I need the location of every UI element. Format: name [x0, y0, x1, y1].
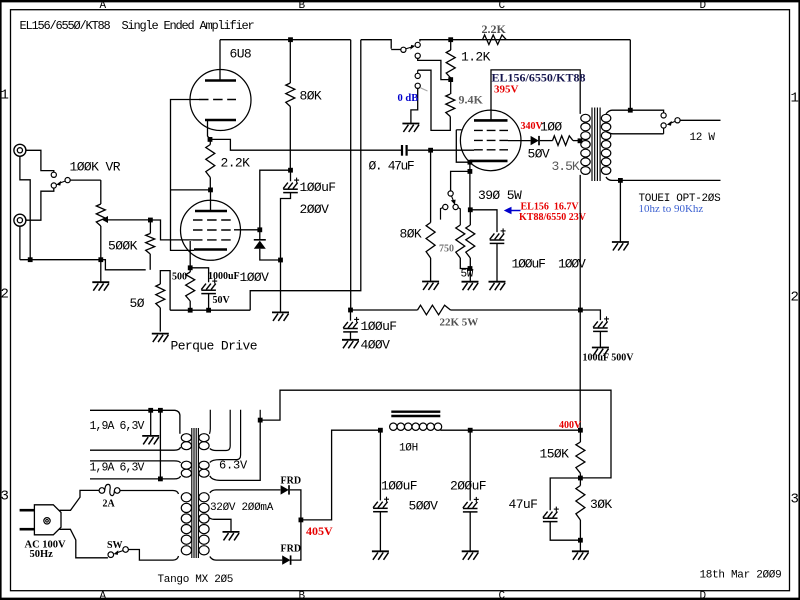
zener diode screen clamp: [259, 230, 261, 240]
capacitor 100uF 400V preamp: [350, 310, 352, 321]
svg-text:39Ø 5W: 39Ø 5W: [478, 188, 522, 203]
junction B+ main: [578, 308, 583, 313]
ground 200uF: [462, 551, 479, 560]
svg-text:2: 2: [791, 290, 799, 306]
svg-text:2ØØV: 2ØØV: [300, 202, 330, 217]
wire junction to pentode grid: [150, 220, 193, 240]
svg-text:1: 1: [791, 91, 799, 107]
junction UL tap: [578, 138, 583, 143]
wire pentode ground-return bus: [170, 309, 250, 311]
wire switch to primary bottom: [128, 550, 178, 561]
svg-text:3: 3: [791, 492, 799, 508]
svg-text:EL156 16.7V: EL156 16.7V: [521, 201, 580, 212]
svg-text:1ØØK VR: 1ØØK VR: [70, 160, 121, 175]
resistor 50 (feedback): [160, 271, 170, 311]
junction divider: [578, 476, 583, 481]
wire KT88 cathode lead: [469, 161, 471, 172]
wire 500K bottom: [149, 254, 151, 270]
wire rectifier join upper: [290, 490, 301, 520]
resistor 150K: [579, 430, 581, 442]
PT heater winding 1 left: [181, 434, 191, 450]
diode 50V screen: [531, 136, 539, 145]
input selector upper contact: [51, 172, 56, 177]
tube 6U8 triode section V1a: [190, 70, 251, 131]
tube EL156/6550/KT88 V2: [460, 110, 521, 171]
tube 6U8 pentode section V1b: [181, 200, 241, 260]
feedback switch SW-A moving contact: [401, 47, 406, 52]
ground input bus: [92, 282, 109, 291]
svg-text:6U8: 6U8: [230, 47, 252, 62]
junction cathode resistor top: [468, 207, 473, 212]
wire OPT primary bottom to B+ 400V: [579, 175, 581, 430]
svg-text:D: D: [700, 0, 707, 12]
PT primary winding left: [181, 493, 191, 555]
svg-text:50Hz: 50Hz: [30, 549, 54, 560]
svg-text:2.2K: 2.2K: [221, 156, 251, 171]
junction wiper node: [148, 218, 153, 223]
wire KT88 plate to OPT primary: [491, 70, 580, 121]
junction B+ rail 80K: [288, 37, 293, 42]
wire heater2 top: [90, 461, 181, 463]
resistor 2.2K feedback (horizontal): [483, 35, 507, 45]
input selector lever arrow: [59, 181, 66, 183]
svg-text:B: B: [299, 590, 306, 600]
svg-text:Tango MX 2Ø5: Tango MX 2Ø5: [158, 574, 234, 586]
svg-text:5ØØK: 5ØØK: [108, 239, 138, 254]
wire heater1R bottom stub: [210, 410, 230, 451]
svg-text:5W: 5W: [461, 268, 474, 280]
svg-text:3.5K: 3.5K: [552, 159, 580, 174]
junction heater reference: [258, 418, 263, 423]
wire heater tap to ground: [150, 410, 152, 435]
feedback switch SW-A lower contact: [415, 53, 420, 58]
svg-text:1: 1: [1, 88, 9, 104]
output transformer OPT core: [592, 108, 600, 182]
svg-text:A: A: [100, 0, 107, 12]
junction KT88 grid: [428, 148, 433, 153]
junction bus-pot: [98, 257, 103, 262]
wire pentode plate lead: [210, 190, 212, 211]
wire bus jog to 500K bottom: [101, 260, 146, 270]
SW-B gray lever: [421, 88, 428, 91]
junction rail 1.2K top: [448, 37, 453, 42]
junction screen filter: [288, 168, 293, 173]
resistor 500K: [146, 234, 155, 255]
wire feedback rail to OPT: [420, 40, 630, 42]
junction feedback takeoff: [628, 108, 633, 113]
junction cathode bar: [468, 160, 473, 165]
output switch lower contact: [661, 123, 666, 128]
wire SW-B lower to ground: [411, 88, 418, 123]
fuse 2A: [99, 488, 105, 494]
ground B+ cap: [592, 348, 609, 357]
wire lower contact lead: [663, 128, 665, 134]
svg-text:9.4K: 9.4K: [459, 93, 484, 107]
svg-text:405V: 405V: [306, 524, 333, 538]
wire feedback return to cathode bus: [250, 40, 361, 311]
wire heater parallel tie: [159, 410, 161, 479]
wire heater ref stub: [259, 410, 261, 420]
svg-text:32ØV 2ØØmA: 32ØV 2ØØmA: [210, 502, 274, 514]
wire diode to 100ohm: [540, 140, 553, 142]
svg-text:1ØØuF 1ØØV: 1ØØuF 1ØØV: [512, 256, 587, 271]
PT HV winding right: [199, 493, 209, 555]
resistor 1.2K: [450, 40, 452, 50]
svg-text:B: B: [299, 0, 306, 12]
ground heater: [142, 436, 159, 445]
potentiometer 100K VR body: [96, 204, 105, 226]
resistor 9.4K: [450, 80, 452, 94]
junction pentode plate node: [208, 188, 213, 193]
junction bus-500: [188, 308, 193, 313]
svg-text:2ØØuF: 2ØØuF: [450, 478, 486, 493]
wire selector to volume pot top: [70, 179, 101, 181]
wire secondary to ground: [619, 180, 621, 241]
wire fuse to primary top: [120, 491, 179, 495]
wire plug to switch SW: [60, 529, 108, 558]
wire triode cathode lead: [208, 121, 211, 139]
ground KT88 cathode: [462, 282, 479, 291]
SW-A lever arrow: [406, 47, 412, 49]
wire heater1 bottom: [90, 447, 181, 450]
svg-text:Perque Drive: Perque Drive: [171, 338, 257, 353]
svg-text:100uF 500V: 100uF 500V: [583, 352, 635, 363]
wire B+ dropper feed down: [350, 40, 352, 310]
resistor 750: [456, 225, 465, 258]
output switch lever arrow: [670, 121, 675, 123]
capacitor 0.47uF: [401, 145, 403, 156]
input jack J2 bottom: [14, 214, 26, 226]
wire HV top to diode: [210, 490, 281, 493]
svg-text:1ØØV: 1ØØV: [240, 270, 270, 285]
OPT secondary winding: [601, 114, 610, 174]
wire SW-C left stub: [441, 208, 443, 220]
resistor 22K 5W: [418, 305, 451, 315]
resistor 500 (pentode cathode): [189, 268, 191, 272]
svg-text:A: A: [100, 590, 107, 600]
bias switch SW-C left contact: [443, 204, 448, 209]
PT heater winding 2 left: [181, 461, 191, 477]
svg-text:8ØK: 8ØK: [400, 226, 422, 241]
junction heater parallel top: [158, 408, 163, 413]
wire B+ preamp rail: [220, 39, 351, 41]
output switch upper contact: [661, 113, 666, 118]
svg-text:SW: SW: [107, 540, 123, 551]
junction 1.2K-9.4K: [448, 77, 453, 82]
wire jack2 tip to selector lower contact: [26, 188, 54, 220]
wire plug to fuse: [60, 490, 100, 510]
junction 405V node: [299, 518, 304, 523]
junction secondary ground: [618, 178, 623, 183]
pot wiper arrow: [102, 216, 109, 223]
wire grid node into KT88 g1: [431, 149, 474, 151]
bias switch SW-C right contact: [453, 204, 458, 209]
junction 390-750 bottom: [468, 266, 473, 271]
wire HV bottom to diode: [210, 557, 282, 561]
svg-text:1ØØuF: 1ØØuF: [300, 180, 336, 195]
wire dropper rail right: [451, 310, 601, 320]
svg-text:15ØK: 15ØK: [540, 446, 570, 461]
svg-text:5ØØV: 5ØØV: [409, 498, 439, 513]
svg-text:1,9A 6,3V: 1,9A 6,3V: [90, 461, 145, 474]
junction heater parallel bottom: [158, 477, 163, 482]
svg-text:22K 5W: 22K 5W: [440, 316, 479, 328]
svg-text:1,9A 6,3V: 1,9A 6,3V: [90, 420, 145, 433]
wire jack1 sleeve down to ground bus: [20, 157, 30, 260]
ground 50 ohm: [152, 334, 169, 343]
ground HV center tap: [223, 532, 240, 541]
svg-text:C: C: [499, 590, 506, 600]
wire jack1 tip to selector upper contact: [26, 150, 54, 172]
svg-text:6.3V: 6.3V: [219, 459, 248, 473]
input selector lower contact: [51, 183, 56, 188]
ground divider: [572, 551, 589, 560]
svg-text:3: 3: [1, 489, 9, 505]
wire bus to ground: [100, 260, 102, 282]
OPT primary winding: [581, 114, 590, 174]
wire to moving contact: [391, 49, 401, 51]
svg-text:FRD: FRD: [281, 544, 302, 555]
choke 10H: [391, 411, 440, 413]
svg-text:3ØK: 3ØK: [590, 497, 612, 512]
svg-text:2A: 2A: [103, 498, 116, 509]
ground screen network: [272, 312, 289, 321]
svg-text:5Ø: 5Ø: [130, 296, 145, 311]
AC plug: [20, 505, 61, 535]
PT heater winding 2 right: [199, 461, 209, 477]
junction 30K bottom: [578, 538, 583, 543]
wire feedback up to rail: [629, 40, 631, 111]
capacitor 100uF 500V B+: [593, 316, 609, 331]
input selector moving contact: [65, 178, 70, 183]
power switch SW: [108, 552, 114, 558]
ground grid leak: [422, 282, 439, 291]
wire pot top lead: [100, 180, 102, 204]
capacitor 1000uF 100V: [190, 268, 208, 283]
wire SW-B upper lead: [417, 70, 419, 73]
resistor 390 5W: [469, 210, 471, 225]
ground bus wire: [20, 259, 101, 261]
wire wiper junction to 500K: [149, 220, 151, 234]
power transformer core: [192, 428, 199, 558]
wire choke out to 400V node: [440, 429, 580, 431]
wire heater2 bottom: [90, 476, 181, 479]
bias switch SW-C top contact: [448, 191, 453, 196]
output switch moving contact: [675, 118, 680, 123]
wire g3 to cathode: [456, 130, 470, 162]
SW-C lever arrow: [452, 196, 454, 201]
svg-text:C: C: [499, 0, 506, 12]
junction dropper input: [348, 308, 353, 313]
junction heater ground tap: [148, 408, 153, 413]
wire secondary tap to switch lower: [606, 132, 664, 134]
resistor 80K screen dropper: [289, 40, 291, 83]
switch SW-B upper contact: [415, 73, 420, 78]
resistor 2.2K (triode cathode): [209, 139, 211, 144]
resistor 80K grid leak: [430, 150, 432, 222]
capacitor 100uF 500V input filter: [379, 430, 381, 500]
svg-text:500: 500: [172, 271, 187, 282]
svg-text:1.2K: 1.2K: [461, 49, 491, 64]
svg-text:12 W: 12 W: [690, 132, 716, 144]
wire SW-C right to 750: [458, 208, 460, 225]
wire to screen grid: [260, 170, 291, 230]
wire cathode to bias switch: [451, 171, 470, 191]
ground SW-B: [402, 124, 419, 133]
junction cathode tap: [468, 169, 473, 174]
junction zener-cap chain: [278, 258, 283, 263]
wire triode grid down to pentode cathode bar: [171, 100, 200, 251]
wire heater2R top stub: [210, 410, 241, 463]
ground OPT secondary: [612, 242, 629, 251]
svg-text:4ØØV: 4ØØV: [361, 338, 391, 353]
wire plate node horizontal: [171, 189, 211, 191]
junction 400V node: [578, 428, 583, 433]
capacitor 200uF: [469, 430, 471, 500]
wire heater elevation reference to divider: [260, 390, 611, 478]
diode FRD lower: [282, 555, 290, 564]
svg-text:EL156/655Ø/KT88 Single Ended: EL156/655Ø/KT88 Single Ended Amplifier: [20, 19, 255, 33]
wire cathode follower output to 0.47uF: [210, 139, 401, 150]
wire g3 tie top: [456, 129, 461, 131]
wire screen to zener diode: [508, 140, 531, 142]
svg-text:1ØØuF: 1ØØuF: [361, 319, 397, 334]
wire secondary bottom: [606, 177, 721, 180]
junction 200uF: [468, 428, 473, 433]
svg-text:750: 750: [439, 243, 454, 254]
svg-text:10hz to 90Khz: 10hz to 90Khz: [639, 203, 704, 215]
wire screen row extension: [234, 229, 260, 231]
resistor 30K: [579, 478, 581, 486]
svg-text:D: D: [700, 590, 707, 600]
wire 0.47uF to KT88 grid node: [408, 149, 431, 151]
wire cathode down: [469, 171, 471, 209]
junction bus-jack1: [28, 257, 33, 262]
wire HV center tap: [209, 517, 232, 531]
capacitor 47uF: [550, 478, 580, 510]
wire 405V to filter: [301, 430, 381, 520]
svg-text:FRD: FRD: [281, 475, 302, 486]
ground preamp cap: [342, 340, 359, 349]
wire heater1R top stub: [209, 410, 212, 434]
svg-text:50V: 50V: [213, 295, 231, 306]
wire wiper to junction: [103, 219, 150, 221]
svg-text:1ØØuF: 1ØØuF: [381, 478, 417, 493]
svg-text:0 dB: 0 dB: [398, 93, 419, 104]
svg-text:395V: 395V: [494, 83, 519, 95]
wire jack2 sleeve to bus: [19, 226, 21, 259]
diode FRD upper: [281, 485, 289, 494]
junction pentode cathode: [188, 265, 193, 270]
wire feedback switch feed: [361, 40, 391, 49]
junction screen grid node: [257, 227, 262, 232]
wire heater1 top: [90, 410, 180, 433]
svg-text:1000uF: 1000uF: [208, 271, 240, 282]
wire pot bottom to bus: [100, 226, 102, 260]
wire triode plate to B+ rail: [219, 40, 221, 81]
junction choke input: [378, 428, 383, 433]
blue arrow bias: [511, 210, 520, 212]
switch SW-B lower contact: [415, 83, 420, 88]
PT heater winding 1 right: [199, 434, 209, 450]
svg-text:18th Mar 2ØØ9: 18th Mar 2ØØ9: [700, 569, 782, 581]
resistor 100 (horizontal): [553, 136, 574, 146]
capacitor 100uF 200V: [290, 170, 292, 181]
svg-text:1ØØ: 1ØØ: [540, 119, 562, 134]
wire heater2R bottom to divider ref: [210, 420, 260, 480]
input jack J1 top: [14, 144, 26, 156]
svg-text:5ØV: 5ØV: [528, 146, 550, 161]
wire zener bottom: [260, 249, 281, 260]
wire dropper rail left: [351, 309, 418, 311]
capacitor 100uF 100V cathode bypass: [470, 210, 497, 232]
wire rectifier join lower: [292, 520, 301, 560]
svg-text:Ø. 47uF: Ø. 47uF: [369, 159, 414, 174]
svg-text:1ØH: 1ØH: [399, 442, 418, 454]
ground input filter: [372, 551, 389, 560]
svg-text:KT88/6550 23V: KT88/6550 23V: [519, 212, 587, 223]
ground cathode bypass: [489, 282, 506, 291]
wire secondary top to out switch: [606, 110, 664, 114]
svg-text:EL156/6550/KT88: EL156/6550/KT88: [492, 70, 586, 84]
svg-text:400V: 400V: [559, 420, 582, 431]
svg-text:2.2K: 2.2K: [482, 22, 507, 36]
wire SW-A lower contact to 1.2K bottom: [418, 58, 451, 79]
svg-text:2: 2: [1, 287, 9, 303]
junction triode cathode: [208, 137, 213, 142]
wire pentode cathode lead: [189, 241, 191, 268]
wire output hot: [680, 119, 720, 121]
svg-text:8ØK: 8ØK: [300, 88, 322, 103]
junction bus-1000uF: [206, 308, 211, 313]
feedback switch SW-A upper contact: [415, 42, 420, 47]
svg-text:47uF: 47uF: [509, 497, 538, 512]
